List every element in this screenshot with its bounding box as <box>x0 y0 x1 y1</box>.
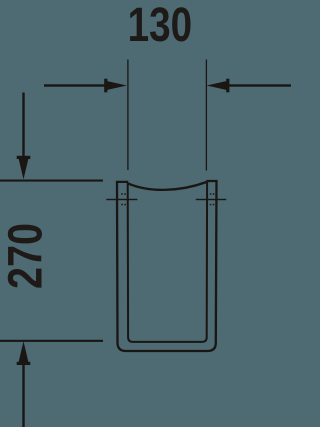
fixing hole dots right <box>210 193 212 195</box>
dimension line 130 right segment <box>228 84 291 86</box>
extension line top of 270 <box>0 180 103 182</box>
arrow left (pointing right) <box>105 81 127 91</box>
svg-text:270: 270 <box>0 223 53 289</box>
extension line bottom of 270 <box>0 340 103 342</box>
fixing hole centerline left <box>106 199 137 200</box>
pedestal outer outline with top corner flats <box>117 181 217 351</box>
dimension line 130 left segment <box>44 84 106 86</box>
dimension line 270 lower segment <box>22 363 24 427</box>
dimension line 270 upper segment <box>22 93 24 159</box>
svg-text:130: 130 <box>128 0 193 52</box>
extension line right of 130 <box>206 60 207 171</box>
pedestal top rim curve <box>128 182 207 190</box>
extension line left of 130 <box>127 60 128 171</box>
arrow up <box>18 341 29 364</box>
arrow right (pointing left) <box>207 81 229 91</box>
arrow down <box>18 157 29 180</box>
fixing hole centerline right <box>196 199 226 200</box>
fixing hole dots left <box>121 193 123 195</box>
pedestal inner outline <box>128 182 207 342</box>
